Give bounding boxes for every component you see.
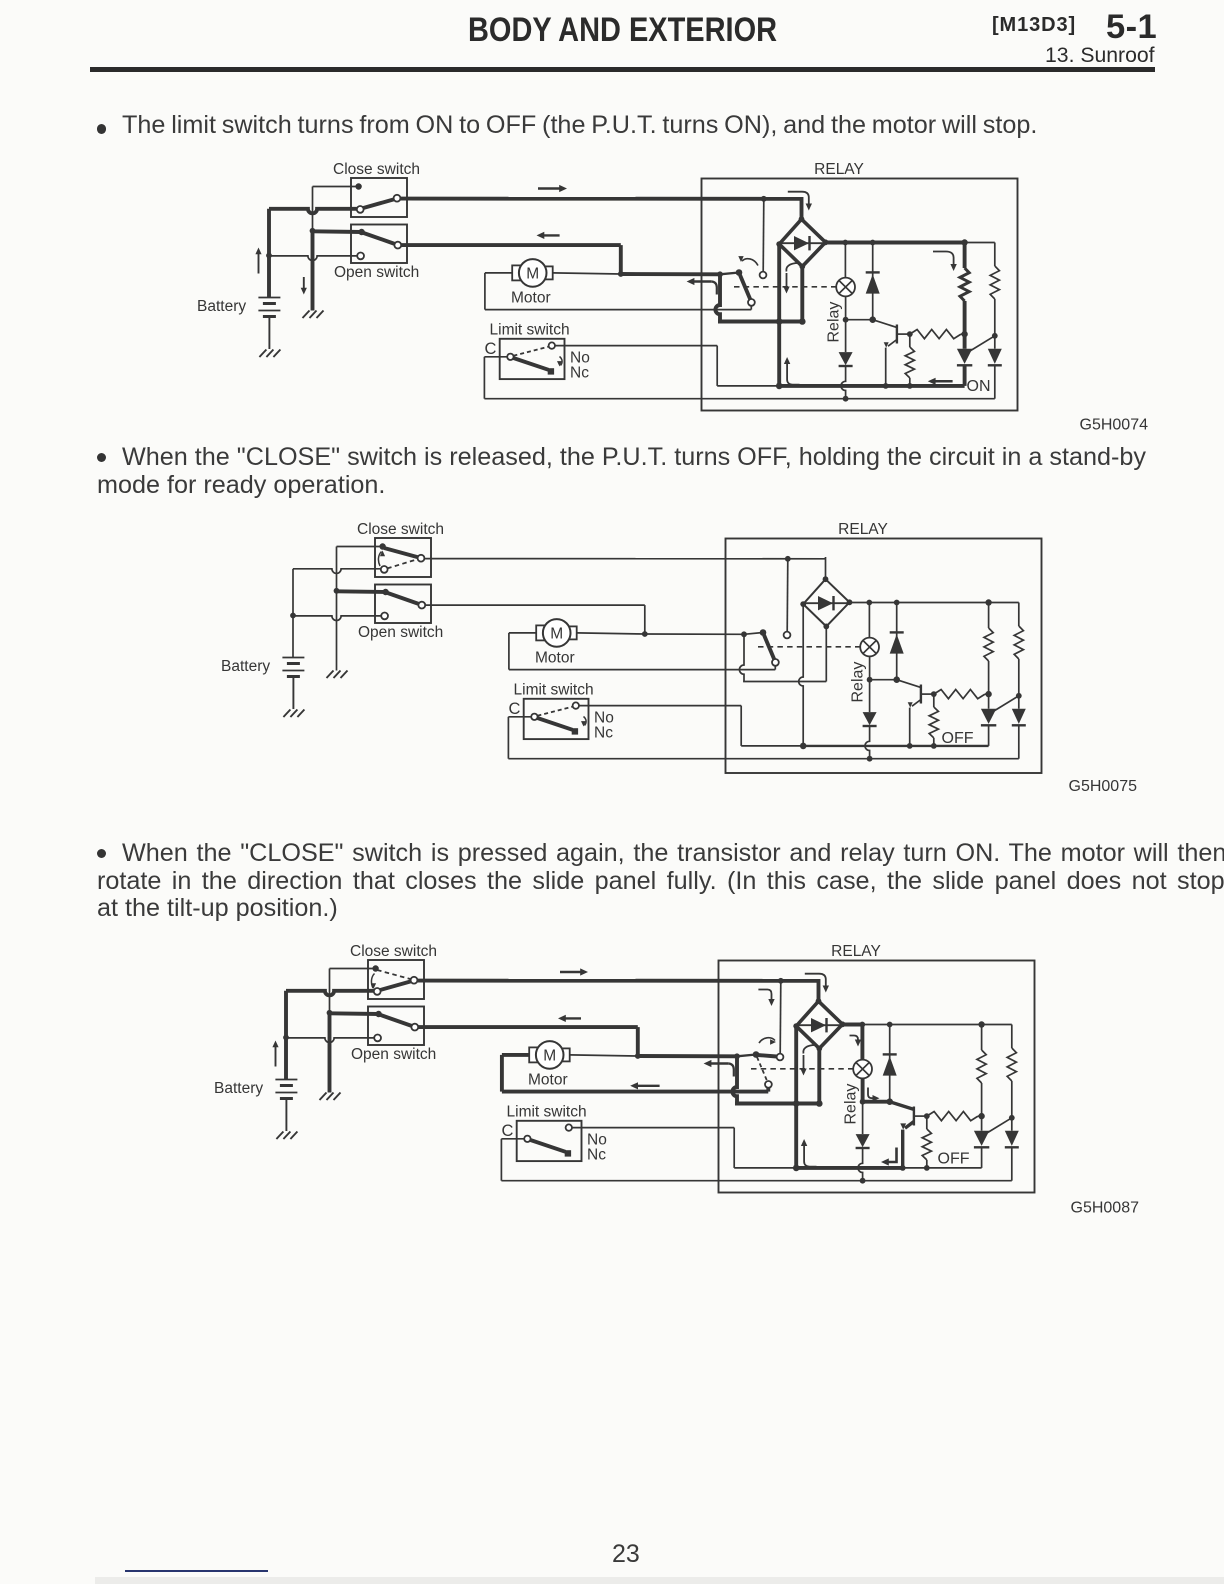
svg-text:Nc: Nc — [587, 1147, 606, 1164]
svg-text:Motor: Motor — [528, 1072, 568, 1089]
svg-text:Motor: Motor — [535, 650, 575, 667]
svg-text:Nc: Nc — [594, 725, 613, 742]
svg-text:M: M — [526, 265, 539, 282]
svg-text:C: C — [485, 340, 497, 358]
svg-text:RELAY: RELAY — [831, 943, 881, 960]
svg-text:G5H0074: G5H0074 — [1080, 417, 1149, 434]
svg-text:G5H0087: G5H0087 — [1071, 1200, 1140, 1217]
svg-text:Relay: Relay — [843, 1084, 860, 1125]
svg-text:OFF: OFF — [942, 730, 974, 747]
svg-text:RELAY: RELAY — [838, 521, 888, 538]
svg-text:Close switch: Close switch — [357, 521, 444, 538]
svg-text:Relay: Relay — [850, 662, 867, 703]
svg-text:Battery: Battery — [221, 658, 270, 675]
svg-text:C: C — [509, 700, 521, 718]
svg-text:Limit switch: Limit switch — [514, 682, 594, 699]
svg-text:Relay: Relay — [826, 302, 843, 343]
svg-text:M: M — [543, 1047, 556, 1064]
svg-text:G5H0075: G5H0075 — [1069, 778, 1138, 795]
svg-text:ON: ON — [967, 378, 991, 395]
svg-text:OFF: OFF — [938, 1151, 970, 1168]
svg-text:Limit switch: Limit switch — [507, 1104, 587, 1121]
svg-text:RELAY: RELAY — [814, 161, 864, 178]
svg-text:C: C — [502, 1122, 514, 1140]
svg-text:Limit switch: Limit switch — [490, 322, 570, 339]
svg-text:M: M — [550, 625, 563, 642]
svg-text:Nc: Nc — [570, 365, 589, 382]
svg-text:Motor: Motor — [511, 290, 551, 307]
svg-text:Battery: Battery — [197, 298, 246, 315]
svg-text:Close switch: Close switch — [333, 161, 420, 178]
svg-text:Open switch: Open switch — [358, 624, 443, 641]
svg-text:Open switch: Open switch — [334, 264, 419, 281]
svg-text:Open switch: Open switch — [351, 1046, 436, 1063]
svg-text:Battery: Battery — [214, 1080, 263, 1097]
svg-text:Close switch: Close switch — [350, 943, 437, 960]
